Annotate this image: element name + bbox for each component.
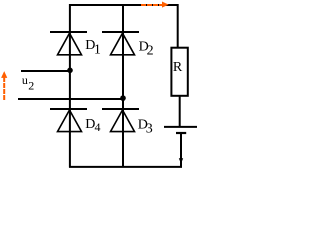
svg-text:2: 2 xyxy=(147,43,154,58)
svg-text:R: R xyxy=(173,60,183,75)
svg-text:u: u xyxy=(22,73,28,87)
svg-text:4: 4 xyxy=(95,120,101,134)
svg-text:2: 2 xyxy=(28,78,34,92)
svg-text:1: 1 xyxy=(94,43,101,58)
svg-text:3: 3 xyxy=(146,121,153,136)
